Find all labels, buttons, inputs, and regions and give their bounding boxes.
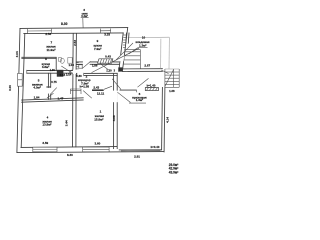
- room8/5 divider wall: [27, 69, 73, 71]
- svg-text:2.53: 2.53: [45, 32, 51, 36]
- bath divider wall room8 right: [55, 58, 57, 71]
- outdoor stair diagonal: [165, 70, 174, 87]
- svg-text:2.67: 2.67: [144, 64, 150, 68]
- kitchen diagonals X: [100, 64, 108, 70]
- flue box: [79, 65, 82, 68]
- svg-text:8.30: 8.30: [67, 153, 73, 157]
- room5 right wall (room3): [47, 73, 49, 87]
- svg-text:7.9м²: 7.9м²: [94, 47, 101, 51]
- svg-text:13.8м²: 13.8м²: [42, 123, 51, 127]
- svg-text:2.53: 2.53: [73, 40, 77, 46]
- svg-text:1.14: 1.14: [66, 73, 72, 77]
- svg-text:4.14: 4.14: [165, 117, 169, 123]
- svg-text:b=0.40: b=0.40: [151, 145, 160, 149]
- pech bracket symbol corridor: [71, 89, 82, 94]
- central wall below door gap: [72, 74, 74, 146]
- leader diagonal right of bar: [104, 86, 112, 89]
- kitchen bottom wall: [76, 61, 119, 63]
- svg-text:3.59: 3.59: [42, 141, 48, 145]
- svg-text:1.3м²: 1.3м²: [136, 98, 143, 102]
- internal stair treads: [124, 51, 140, 53]
- closet ladder rungs: [123, 34, 126, 36]
- corridor ladder rungs: [76, 62, 78, 64]
- outer wall: left outer: [17, 28, 20, 152]
- kitchen right wall inner: [119, 33, 123, 71]
- door ticks: [46, 86, 50, 88]
- bath fixtures: [68, 58, 72, 64]
- svg-text:12.11: 12.11: [97, 91, 105, 95]
- svg-text:4.0м²: 4.0м²: [33, 86, 40, 90]
- svg-text:h=1.58: h=1.58: [80, 85, 90, 89]
- svg-text:0.75: 0.75: [51, 80, 57, 84]
- prihozhaya left wall: [113, 73, 115, 148]
- kitchen door gap in right wall: [117, 55, 125, 61]
- outdoor stair right: [165, 68, 179, 70]
- door gap prihozhaya wall: [113, 91, 118, 103]
- window bottom wall room1: [83, 147, 109, 152]
- svg-text:11.9м²: 11.9м²: [47, 48, 56, 52]
- svg-text:1.06: 1.06: [68, 63, 74, 67]
- diagonal near room1 top right: [112, 79, 121, 90]
- door gap kitchen bottom wall: [83, 61, 90, 65]
- right wall door leaf: [161, 70, 168, 74]
- window kitchen top wall: [100, 29, 110, 33]
- seni top light line: [128, 36, 170, 38]
- svg-text:1.84: 1.84: [34, 96, 40, 100]
- porch dividing wall: [121, 68, 163, 70]
- outer wall: top outer: [20, 27, 128, 30]
- svg-text:1.90: 1.90: [50, 68, 56, 72]
- svg-text:0.84: 0.84: [60, 73, 66, 77]
- svg-text:10: 10: [142, 35, 146, 39]
- shkaf label leader: [82, 18, 84, 28]
- svg-text:15.8м²: 15.8м²: [94, 117, 103, 121]
- black stove: [57, 70, 64, 77]
- window bottom wall room4: [33, 147, 57, 152]
- outer wall: bottom outer: [17, 152, 164, 153]
- svg-text:3.44: 3.44: [65, 120, 69, 126]
- outer wall: left inner: [21, 34, 25, 148]
- outer wall: bottom inner left part: [21, 146, 117, 149]
- room7/room8 divider: [22, 56, 56, 58]
- svg-text:43.9м²: 43.9м²: [169, 171, 179, 175]
- svg-text:3.00: 3.00: [8, 85, 12, 91]
- svg-text:1.3м²: 1.3м²: [139, 43, 146, 47]
- svg-text:1.38: 1.38: [169, 89, 175, 93]
- closet vertical walls: [125, 33, 128, 43]
- door leaf kitchen: [82, 61, 91, 68]
- door leaf prihozhaya: [117, 92, 130, 102]
- svg-text:3.33: 3.33: [104, 32, 110, 36]
- outer wall: top inner: [24, 32, 123, 35]
- door swings room3: [51, 88, 57, 94]
- hatched step bar: [145, 88, 158, 91]
- svg-text:1.86: 1.86: [92, 64, 98, 68]
- bath door swing: [61, 66, 71, 73]
- door gap room1 top wall: [77, 73, 84, 77]
- door leaf horizontal y90: [120, 89, 136, 91]
- corridor door swing to room1: [83, 91, 92, 99]
- stair right edge: [139, 50, 141, 69]
- svg-text:3.8м²: 3.8м²: [42, 65, 49, 69]
- door leaf central wall: [68, 69, 73, 75]
- kladovaya leader: [129, 48, 138, 54]
- svg-text:1.47: 1.47: [57, 97, 63, 101]
- svg-text:8.30: 8.30: [61, 22, 68, 26]
- svg-text:0.4м²: 0.4м²: [81, 14, 88, 18]
- stair diagonal long: [92, 48, 140, 72]
- window room7 top wall: [28, 29, 52, 33]
- window left wall room5: [18, 73, 23, 86]
- kladovaya underline: [138, 47, 148, 49]
- right wall outer below door: [163, 87, 166, 152]
- svg-text:1.20: 1.20: [106, 68, 112, 72]
- right wall inner below door: [161, 87, 164, 149]
- kitchen stove hatched bar: [98, 59, 113, 63]
- prihozhaya bottom window midline: [121, 150, 161, 152]
- central wall left line upper: [72, 33, 74, 69]
- black wall end block: [118, 67, 122, 71]
- svg-text:2.43: 2.43: [93, 85, 99, 89]
- kitchen right wall outer: [122, 28, 127, 72]
- seni right light line: [168, 37, 170, 69]
- door swing NE prihozhaya: [138, 78, 149, 87]
- stair diagonal short: [116, 43, 133, 60]
- b=1.40 underline: [147, 86, 157, 88]
- stair top edge: [124, 49, 140, 51]
- prihozhaya bottom inner line: [119, 149, 161, 151]
- svg-text:2.91: 2.91: [134, 155, 140, 159]
- room5/room4 divider wall: [22, 98, 84, 100]
- svg-text:b=1.40: b=1.40: [147, 84, 156, 88]
- svg-text:0.43: 0.43: [105, 54, 111, 58]
- dim bar under 2.43: [92, 89, 104, 91]
- room1 top wall: [76, 72, 117, 74]
- svg-text:4.09: 4.09: [112, 115, 116, 121]
- svg-text:3.60: 3.60: [94, 142, 100, 146]
- svg-text:3.04: 3.04: [15, 51, 19, 57]
